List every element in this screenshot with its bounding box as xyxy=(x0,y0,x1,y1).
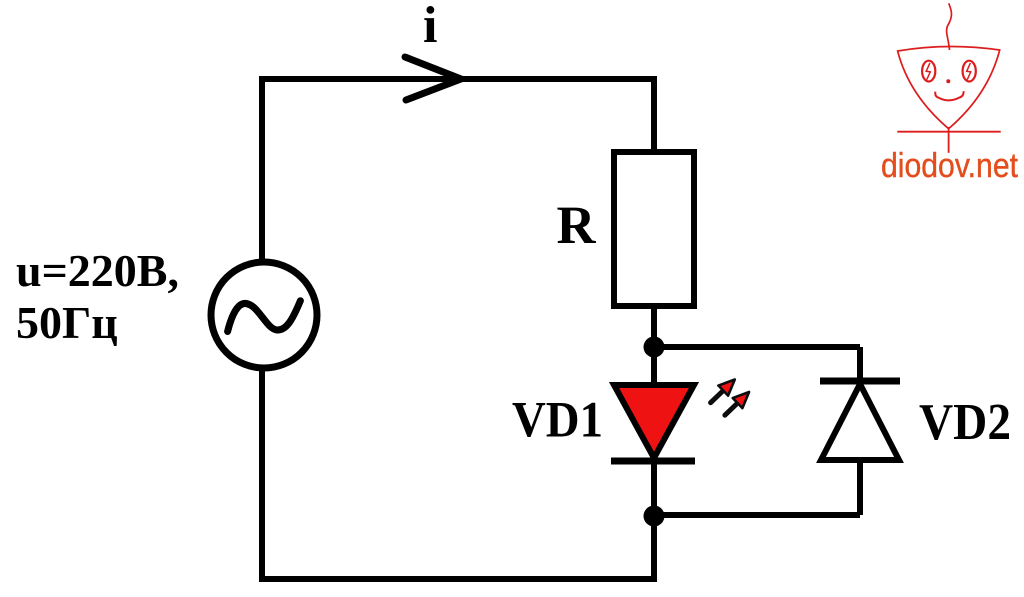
wire: top-left vertical (source to top rail) xyxy=(259,76,265,259)
AC source sine wave xyxy=(228,301,301,332)
logo left eye xyxy=(922,61,935,82)
logo cathode bar xyxy=(897,131,1000,133)
logo face outline xyxy=(898,46,1000,128)
wire: VD2 bottom vertical xyxy=(857,460,863,515)
logo right eye xyxy=(963,61,976,82)
LED light arrow 2 xyxy=(720,387,754,420)
AC source V1 circle xyxy=(211,262,317,368)
wire: bottom horizontal rail xyxy=(259,576,657,582)
svg-text:VD2: VD2 xyxy=(919,394,1011,451)
diode VD2 triangle xyxy=(821,384,899,460)
node B junction dot xyxy=(644,506,665,527)
svg-text:i: i xyxy=(423,0,437,54)
logo left eye lightning xyxy=(926,63,930,80)
resistor R xyxy=(614,152,694,306)
LED light arrow 1 xyxy=(706,374,740,407)
logo hair curl xyxy=(947,3,952,50)
logo nose dot xyxy=(946,79,950,83)
wire: top horizontal rail xyxy=(259,76,657,82)
wire: resistor to node A xyxy=(651,306,657,347)
LED VD1 triangle xyxy=(614,385,694,458)
wire: VD2 top vertical xyxy=(857,347,863,386)
svg-text:VD1: VD1 xyxy=(512,393,603,449)
wire: node A to LED anode xyxy=(651,347,657,385)
svg-text:u=220В,: u=220В, xyxy=(16,245,179,296)
wire: node B to bottom rail xyxy=(651,516,657,579)
diode VD2 cathode bar xyxy=(820,378,900,385)
logo right eye lightning xyxy=(967,63,971,80)
wire: branch top horizontal (node A to VD2) xyxy=(654,344,860,350)
svg-text:50Гц: 50Гц xyxy=(16,297,118,348)
logo lead xyxy=(948,127,950,153)
svg-text:R: R xyxy=(557,195,597,255)
wire: branch bottom horizontal (VD2 to node B) xyxy=(654,512,860,518)
svg-text:diodov.net: diodov.net xyxy=(881,147,1018,185)
node A junction dot xyxy=(644,337,665,358)
wire: bottom-left vertical (source to bottom rail) xyxy=(259,368,265,582)
LED VD1 cathode bar xyxy=(611,458,695,465)
wire: right vertical top (rail to resistor) xyxy=(651,79,657,155)
wire: LED cathode to node B xyxy=(651,458,657,516)
logo smile xyxy=(935,91,964,100)
current arrow i xyxy=(405,57,461,100)
